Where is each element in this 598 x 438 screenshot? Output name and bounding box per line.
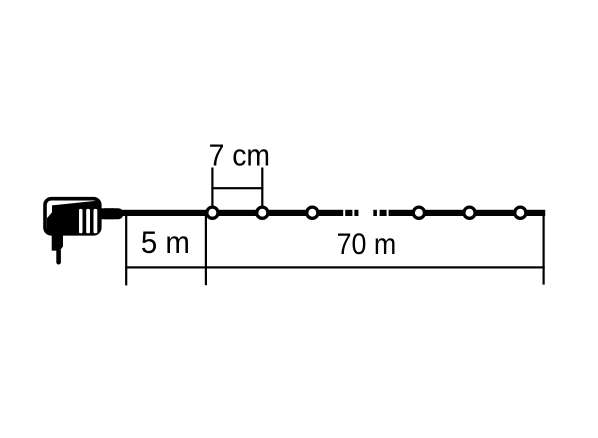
svg-text:70 m: 70 m [337, 227, 397, 260]
power adapter prong base [52, 233, 63, 251]
power adapter vent slot 1 [79, 209, 83, 233]
wire lead segment (plug to dashed break) [118, 210, 343, 216]
svg-text:5 m: 5 m [141, 225, 190, 260]
power adapter pin [56, 250, 61, 264]
bulb LED2 [257, 207, 268, 218]
dimension connector line 7 cm [211, 187, 263, 189]
extension line right (end of 70 m) [543, 216, 545, 285]
bulb LED6 [515, 207, 526, 218]
dimension line bottom (5 m + 70 m) [125, 266, 545, 268]
wire tail segment (to right end) [389, 210, 546, 216]
wire dash dot 2 [354, 210, 358, 216]
bulb LED4 [413, 207, 424, 218]
extension line middle (5 m / 70 m boundary) [205, 216, 207, 286]
power adapter cable stub [100, 208, 123, 219]
wire dash segment 4 [380, 210, 387, 216]
bulb LED3 [307, 207, 318, 218]
wire dash dot 3 [373, 210, 377, 216]
dimension tick left (7 cm, at bulb 1) [211, 168, 213, 213]
power adapter vent slot 2 [86, 209, 90, 233]
power adapter front face fill [47, 201, 98, 232]
bulb LED5 [464, 207, 475, 218]
dimension tick right (7 cm, at bulb 2) [261, 168, 263, 213]
wire dash segment 1 [345, 210, 352, 216]
power adapter body outline [45, 199, 100, 234]
svg-text:7 cm: 7 cm [209, 139, 270, 173]
power adapter vent slot 3 [94, 209, 98, 233]
bulb LED1 [207, 207, 218, 218]
extension line left (start of 5 m) [125, 216, 127, 286]
